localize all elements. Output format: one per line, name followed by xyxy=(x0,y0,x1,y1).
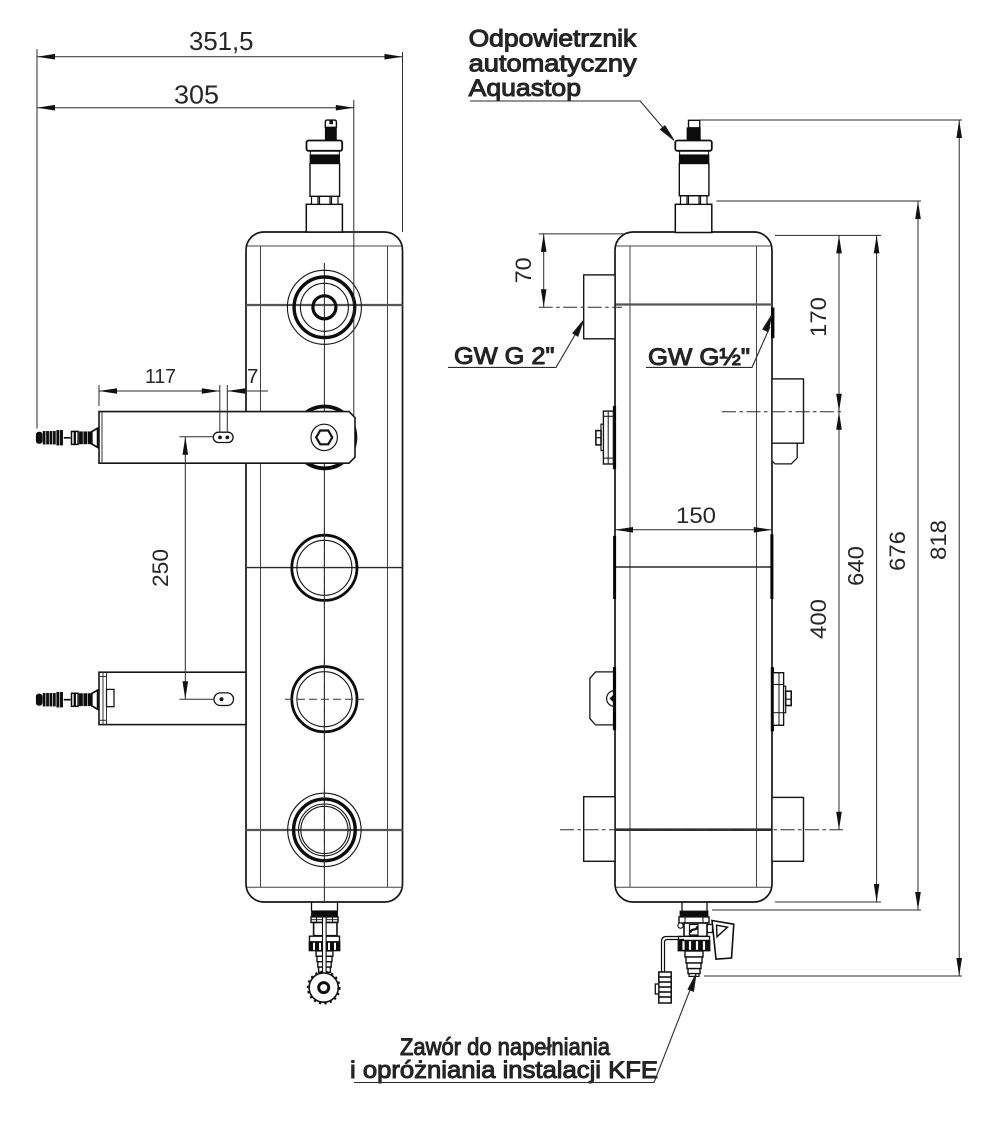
side view weld seam upper xyxy=(615,303,772,305)
upper sensor bracket side view xyxy=(596,406,615,469)
label Zawor do napelniania i oprozniania instalacji KFE xyxy=(350,974,696,1084)
air vent valve front view xyxy=(306,120,342,232)
svg-text:818: 818 xyxy=(926,520,951,560)
port P1 top front xyxy=(287,270,361,344)
svg-text:250: 250 xyxy=(148,549,173,587)
upper right port block side view xyxy=(772,379,804,464)
hex bolt on upper arm xyxy=(311,424,337,450)
air vent valve side view xyxy=(675,120,712,232)
svg-text:Odpowietrznik: Odpowietrznik xyxy=(469,25,638,52)
dimension 640 xyxy=(775,235,881,902)
lower pocket threaded sensor stub xyxy=(36,690,97,709)
port P3 front xyxy=(292,528,357,608)
svg-text:70: 70 xyxy=(511,257,536,283)
front view vertical center line xyxy=(323,263,325,902)
svg-text:automatyczny: automatyczny xyxy=(469,50,637,77)
svg-text:GW G½": GW G½" xyxy=(648,344,750,371)
drain valve front view xyxy=(308,902,340,1003)
side port 2 inch block bottom left xyxy=(584,797,615,862)
lower sensor bracket side view right xyxy=(772,667,791,731)
svg-text:170: 170 xyxy=(806,297,831,337)
slot with two dots on upper arm xyxy=(213,432,233,442)
bottom right port block side view xyxy=(772,797,804,861)
dimension 351,5 xyxy=(37,28,403,429)
dimension 170 xyxy=(775,235,881,411)
svg-text:400: 400 xyxy=(806,599,831,639)
front view weld seam upper xyxy=(246,304,403,306)
dash-dot center line upper right port side xyxy=(722,411,842,413)
dash-dot center line 2 inch port side xyxy=(539,306,622,308)
label GW G half inch xyxy=(646,315,772,371)
svg-text:351,5: 351,5 xyxy=(189,28,254,56)
lower sensor pocket arm xyxy=(99,672,246,724)
side view weld seam middle xyxy=(615,566,772,568)
side view weld seam lower xyxy=(615,828,772,831)
port P2 behind sensor arm front xyxy=(294,407,356,469)
slot with dot on lower arm xyxy=(214,693,234,706)
dimension 150 xyxy=(615,503,772,533)
svg-text:305: 305 xyxy=(174,82,219,110)
svg-text:150: 150 xyxy=(676,503,716,528)
vessel front view body xyxy=(246,232,403,902)
svg-text:GW G 2": GW G 2" xyxy=(454,343,555,370)
svg-text:i opróżniania instalacji KFE: i opróżniania instalacji KFE xyxy=(350,1057,658,1084)
upper pocket threaded sensor stub xyxy=(36,428,97,447)
svg-text:Aquastop: Aquastop xyxy=(469,75,581,102)
dimension 676 xyxy=(712,201,921,910)
svg-text:7: 7 xyxy=(247,365,258,388)
dimension 7 xyxy=(227,365,268,394)
half inch coupling sliver top right xyxy=(771,308,774,339)
port P5 bottom front xyxy=(288,789,361,871)
label Odpowietrznik automatyczny Aquastop xyxy=(469,25,674,140)
upper sensor pocket arm xyxy=(99,412,355,464)
vessel side view body xyxy=(615,232,772,902)
dimension 305 xyxy=(37,82,354,418)
dimension 400 xyxy=(806,412,842,830)
front view weld seam lower xyxy=(246,829,403,831)
dimension 70 xyxy=(511,234,626,307)
dash-dot center line lower port side xyxy=(560,829,843,831)
dimension 117 xyxy=(99,365,227,432)
lower pocket boss side view xyxy=(590,667,615,730)
dimension 250 xyxy=(148,437,214,700)
front view weld seam middle xyxy=(246,567,403,569)
KFE valve side view xyxy=(655,902,734,1003)
svg-text:117: 117 xyxy=(145,365,176,388)
dimension 818 xyxy=(700,120,962,976)
svg-text:640: 640 xyxy=(844,546,869,586)
middle side coupling slivers xyxy=(615,534,772,599)
svg-text:676: 676 xyxy=(885,531,910,571)
side port 2 inch block top left xyxy=(584,275,615,339)
port P4 front xyxy=(285,659,364,739)
label GW G 2 inch xyxy=(448,320,584,370)
